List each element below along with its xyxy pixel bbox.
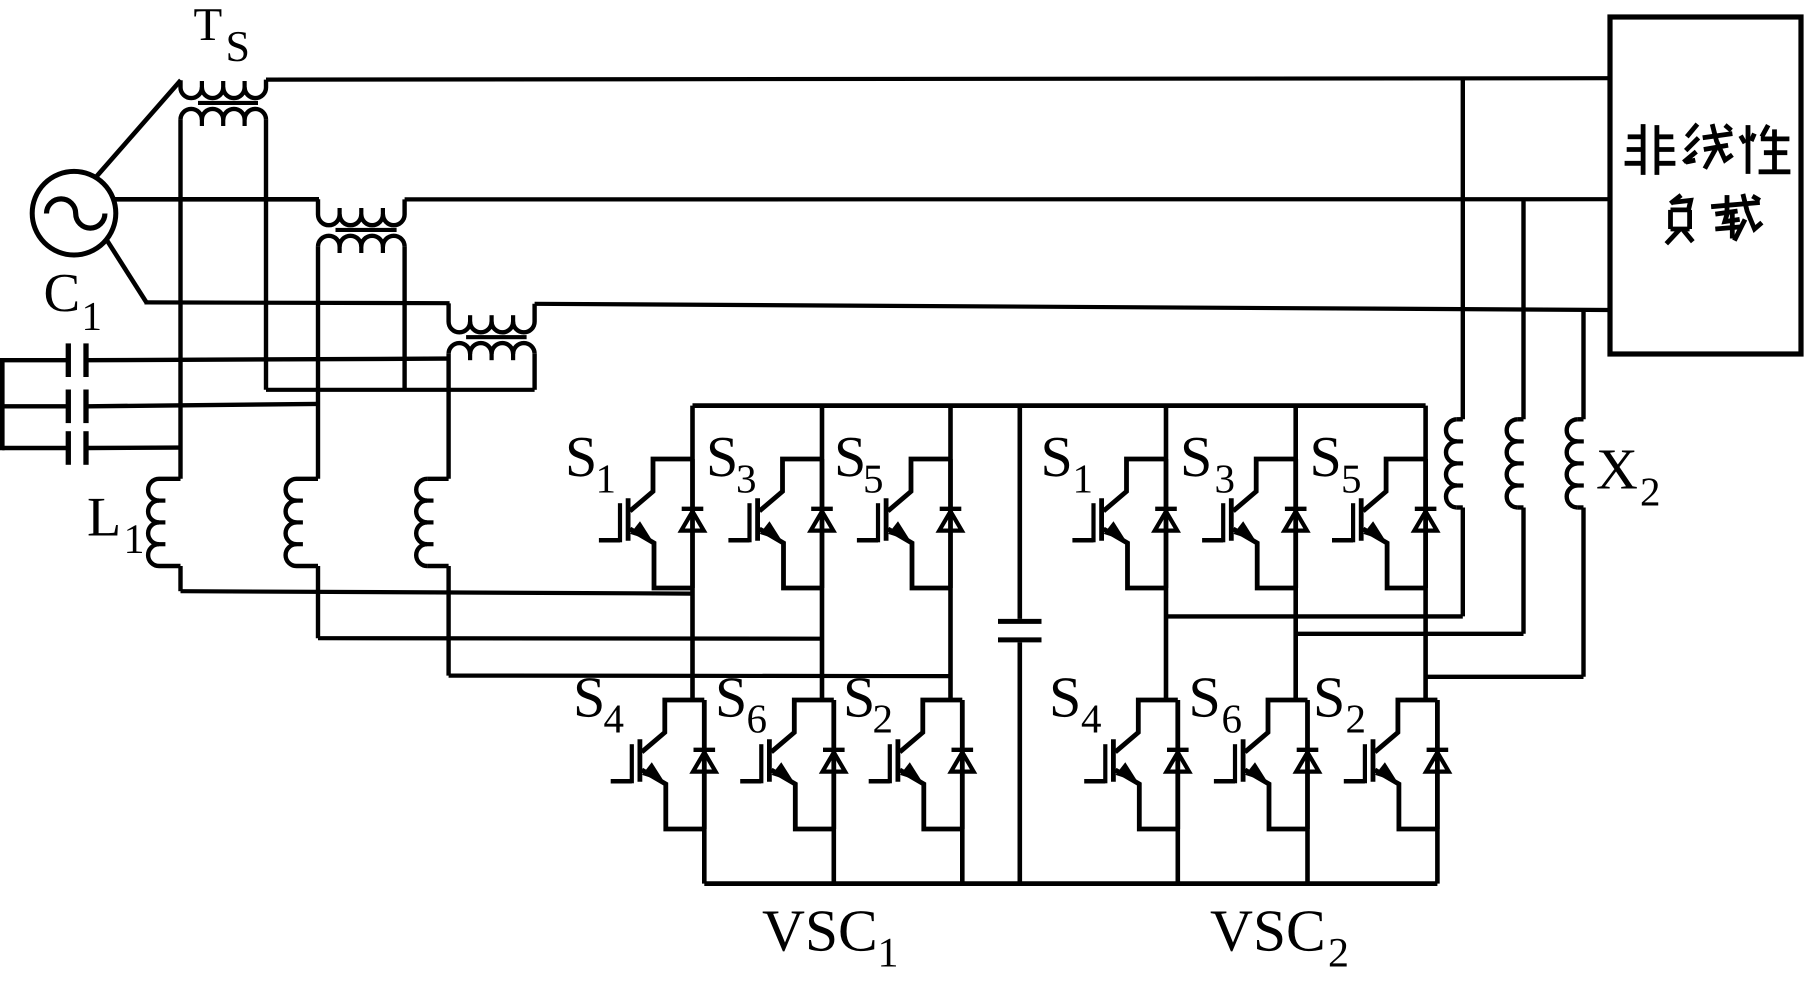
capacitor DC-link top lead <box>1017 406 1022 619</box>
wire T1 secondary right leg <box>264 120 268 390</box>
capacitor C1c plates <box>66 431 71 465</box>
capacitor C1a left wire <box>2 358 66 362</box>
svg-text:S: S <box>1310 424 1342 489</box>
wire VSC2 leg2 lower <box>1305 829 1310 884</box>
transistor S3b VSC2 gate bar <box>1221 503 1225 542</box>
svg-text:6: 6 <box>747 696 768 742</box>
transistor S1b VSC2 gate lead <box>1072 538 1093 543</box>
transistor S5 VSC1 antiparallel diode branch <box>948 459 953 588</box>
capacitor C1a right wire <box>89 359 449 361</box>
transistor S6 VSC1 gate bar <box>759 744 763 783</box>
transformer T3 TS-c primary winding <box>449 303 535 332</box>
transistor S5 VSC1 emitter lead <box>888 529 951 588</box>
transformer T1 TS-a secondary stubs <box>200 119 204 126</box>
wire L1b to VSC1 leg2 <box>318 636 822 641</box>
svg-text:VSC: VSC <box>1210 898 1326 964</box>
transistor S4 VSC1 diode triangle <box>693 752 716 771</box>
transformer T3 TS-c primary stubs <box>468 315 472 322</box>
transistor S4b VSC2 gate lead <box>1084 779 1105 784</box>
node capacitor neutral bus <box>0 358 5 450</box>
svg-text:5: 5 <box>1341 456 1362 502</box>
transistor S6 VSC1 diode cathode bar <box>823 748 845 752</box>
transistor S4 VSC1 emitter arrow <box>642 762 664 782</box>
transistor S1 VSC1 gate lead <box>599 538 620 543</box>
transistor S5 VSC1 diode cathode bar <box>940 507 962 511</box>
inductor X2c top hook <box>1577 417 1583 421</box>
transistor S2 VSC1 body bar <box>896 739 901 781</box>
transistor S3b VSC2 collector lead <box>1233 459 1296 511</box>
inductor X2b top hook <box>1517 417 1523 421</box>
svg-text:2: 2 <box>1640 469 1661 515</box>
svg-text:X: X <box>1596 437 1638 502</box>
svg-text:6: 6 <box>1222 696 1243 742</box>
transistor S6 VSC1 emitter arrow <box>772 762 794 782</box>
wire bus A to load <box>266 78 1610 79</box>
wire VSC1 leg1 mid <box>690 588 695 700</box>
svg-text:S: S <box>1180 424 1212 489</box>
transistor S5 VSC1 gate lead <box>857 538 878 543</box>
capacitor C1b right wire <box>89 404 319 406</box>
svg-text:2: 2 <box>1346 696 1367 742</box>
svg-text:S: S <box>226 22 250 71</box>
inductor L1a top hook <box>159 477 181 481</box>
transistor S3 VSC1 gate lead <box>728 538 749 543</box>
transistor S4b VSC2 diode triangle <box>1167 752 1190 771</box>
transistor S6b VSC2 antiparallel diode branch <box>1305 700 1310 829</box>
svg-text:3: 3 <box>736 456 757 502</box>
transistor S1b VSC2 emitter arrow <box>1104 521 1126 541</box>
transistor S5b VSC2 diode triangle <box>1414 511 1437 530</box>
svg-text:1: 1 <box>124 517 145 563</box>
transistor S4 VSC1 collector lead <box>642 700 705 752</box>
wire VSC2 leg2 upper <box>1293 406 1298 459</box>
svg-text:1: 1 <box>878 931 899 977</box>
transformer T3 TS-c core <box>466 335 526 339</box>
transistor S4 VSC1 emitter lead <box>642 770 705 829</box>
wire T2 secondary right leg <box>402 247 406 390</box>
inductor L1a bottom lead <box>178 566 182 591</box>
transistor S3b VSC2 diode triangle <box>1284 511 1307 530</box>
transistor S6b VSC2 collector lead <box>1245 700 1308 752</box>
wire VSC2 leg3 lower <box>1435 829 1440 884</box>
transistor S2 VSC1 diode cathode bar <box>952 748 974 752</box>
transistor S3 VSC1 gate bar <box>747 503 751 542</box>
transistor S4b VSC2 gate bar <box>1103 744 1107 783</box>
inductor X2c coil <box>1567 419 1578 507</box>
svg-text:1: 1 <box>1073 456 1094 502</box>
capacitor DC-link plates <box>998 619 1042 624</box>
transistor S5b VSC2 antiparallel diode branch <box>1423 459 1428 588</box>
svg-text:L: L <box>87 487 121 549</box>
transistor S2 VSC1 diode triangle <box>951 752 974 771</box>
transistor S3 VSC1 antiparallel diode branch <box>820 459 825 588</box>
transistor S6b VSC2 gate lead <box>1214 779 1235 784</box>
inductor X2a bottom lead <box>1461 508 1465 617</box>
AC source VS <box>32 171 116 255</box>
svg-text:S: S <box>706 424 738 489</box>
transistor S3b VSC2 diode cathode bar <box>1285 507 1307 511</box>
inductor X2c top lead <box>1581 310 1585 420</box>
transistor S2b VSC2 emitter lead <box>1375 770 1438 829</box>
inductor L1c top hook <box>427 477 449 481</box>
svg-text:S: S <box>565 424 597 489</box>
transistor S5 VSC1 body bar <box>884 498 889 540</box>
transistor S6 VSC1 collector lead <box>771 700 834 752</box>
transistor S4 VSC1 antiparallel diode branch <box>702 700 707 829</box>
transistor S1b VSC2 gate bar <box>1091 503 1095 542</box>
transistor S2b VSC2 body bar <box>1371 739 1376 781</box>
inductor L1c bottom lead <box>446 566 450 676</box>
wire VSC1 leg2 mid <box>820 588 825 700</box>
svg-text:5: 5 <box>863 456 884 502</box>
label load text line1 <box>1641 124 1646 175</box>
nonlinear load box <box>1610 17 1801 354</box>
transistor S2b VSC2 gate lead <box>1344 779 1365 784</box>
transistor S4b VSC2 emitter arrow <box>1116 762 1138 782</box>
inductor X2c bottom hook <box>1577 505 1583 509</box>
transistor S5b VSC2 gate bar <box>1351 503 1355 542</box>
transistor S6 VSC1 diode triangle <box>823 752 846 771</box>
transistor S3 VSC1 emitter arrow <box>760 521 782 541</box>
transformer T1 TS-a secondary winding <box>181 109 267 120</box>
transistor S1 VSC1 diode triangle <box>681 511 704 530</box>
inductor X2b top lead <box>1521 199 1525 419</box>
transistor S2b VSC2 emitter arrow <box>1375 762 1397 782</box>
svg-text:S: S <box>834 424 866 489</box>
transformer T1 TS-a primary winding <box>181 80 267 98</box>
wire VSC2 leg2 mid <box>1293 588 1298 700</box>
transistor S2 VSC1 gate lead <box>869 779 890 784</box>
transistor S6b VSC2 diode triangle <box>1296 752 1319 771</box>
transistor S4b VSC2 emitter lead <box>1115 770 1178 829</box>
transistor S1 VSC1 gate bar <box>618 503 622 542</box>
transistor S5 VSC1 gate bar <box>876 503 880 542</box>
transistor S1b VSC2 body bar <box>1099 498 1104 540</box>
capacitor C1a plates <box>66 343 71 377</box>
wire VSC1 leg3 lower <box>960 829 965 884</box>
transistor S2b VSC2 gate bar <box>1363 744 1367 783</box>
capacitor C1b left wire <box>2 404 66 408</box>
transistor S1 VSC1 collector lead <box>630 459 693 511</box>
inductor L1a bottom hook <box>159 564 181 568</box>
inductor X2a bottom hook <box>1457 505 1463 509</box>
wire phase C to T3 <box>145 300 450 305</box>
transistor S6 VSC1 antiparallel diode branch <box>831 700 836 829</box>
wire bus B to load <box>405 197 1610 201</box>
transistor S4 VSC1 gate bar <box>630 744 634 783</box>
transistor S4 VSC1 gate lead <box>611 779 632 784</box>
svg-text:S: S <box>1041 424 1073 489</box>
inductor L1b coil <box>286 479 297 566</box>
transistor S4b VSC2 collector lead <box>1115 700 1178 752</box>
inductor L1b bottom lead <box>316 566 320 638</box>
label load text line2 <box>1671 195 1682 203</box>
svg-text:2: 2 <box>873 696 894 742</box>
transistor S2b VSC2 antiparallel diode branch <box>1435 700 1440 829</box>
capacitor C1c left wire <box>2 446 66 450</box>
wire T3 secondary right leg <box>532 354 536 390</box>
transistor S2 VSC1 gate bar <box>888 744 892 783</box>
transistor S5b VSC2 diode cathode bar <box>1415 507 1437 511</box>
transistor S2 VSC1 antiparallel diode branch <box>960 700 965 829</box>
transistor S5b VSC2 collector lead <box>1363 459 1426 511</box>
transistor S5 VSC1 diode triangle <box>939 511 962 530</box>
transistor S2b VSC2 diode triangle <box>1426 752 1449 771</box>
inductor X2b coil <box>1507 419 1518 507</box>
transistor S6b VSC2 diode cathode bar <box>1297 748 1319 752</box>
inductor X2a top hook <box>1457 417 1463 421</box>
inductor L1b bottom hook <box>297 564 319 568</box>
transistor S3b VSC2 antiparallel diode branch <box>1293 459 1298 588</box>
transistor S2 VSC1 emitter arrow <box>900 762 922 782</box>
wire VSC DC- rail <box>704 881 1437 886</box>
transistor S1b VSC2 diode triangle <box>1155 511 1178 530</box>
transistor S5 VSC1 emitter arrow <box>888 521 910 541</box>
svg-text:S: S <box>715 665 747 730</box>
svg-text:S: S <box>1189 665 1221 730</box>
wire L1c to VSC1 leg3 <box>449 673 951 678</box>
wire T2 secondary left leg <box>316 247 320 479</box>
transistor S5b VSC2 emitter lead <box>1363 529 1426 588</box>
svg-text:3: 3 <box>1215 456 1236 502</box>
inductor X2b bottom hook <box>1517 505 1523 509</box>
transistor S5b VSC2 gate lead <box>1332 538 1353 543</box>
transformer T3 TS-c secondary stubs <box>468 353 472 360</box>
svg-text:C: C <box>44 262 81 323</box>
transistor S3 VSC1 body bar <box>755 498 760 540</box>
transformer T2 TS-b secondary winding <box>318 236 405 247</box>
wire T3 secondary left leg <box>446 354 450 479</box>
inductor X2a top lead <box>1461 79 1465 419</box>
wire secondary common bus <box>266 388 535 392</box>
svg-text:2: 2 <box>1328 931 1349 977</box>
wire VSC1 leg2 upper <box>820 406 825 459</box>
transistor S4 VSC1 diode cathode bar <box>694 748 716 752</box>
transistor S1b VSC2 antiparallel diode branch <box>1164 459 1169 588</box>
transistor S3b VSC2 gate lead <box>1202 538 1223 543</box>
wire T1 secondary left leg <box>178 120 182 479</box>
wire VSC2 leg3 mid <box>1423 588 1428 700</box>
transistor S4b VSC2 antiparallel diode branch <box>1175 700 1180 829</box>
inductor X2a coil <box>1446 419 1457 507</box>
svg-text:S: S <box>1313 665 1345 730</box>
transistor S6b VSC2 emitter arrow <box>1245 762 1267 782</box>
svg-text:T: T <box>194 0 223 51</box>
wire VSC2 phase3 to X2 <box>1426 675 1584 679</box>
wire VSC DC+ rail <box>693 403 1426 408</box>
inductor X2c bottom lead <box>1581 508 1585 677</box>
transistor S3 VSC1 collector lead <box>760 459 823 511</box>
transformer T2 TS-b secondary stubs <box>338 246 342 253</box>
svg-text:4: 4 <box>604 696 625 742</box>
transistor S2b VSC2 diode cathode bar <box>1427 748 1449 752</box>
wire VSC1 leg1 upper <box>690 406 695 459</box>
wire VSC2 leg1 mid <box>1164 588 1169 700</box>
transistor S1b VSC2 emitter lead <box>1104 529 1167 588</box>
inductor L1c bottom hook <box>427 564 449 568</box>
transistor S5b VSC2 body bar <box>1359 498 1364 540</box>
transistor S1 VSC1 emitter arrow <box>630 521 652 541</box>
transistor S1 VSC1 diode cathode bar <box>682 507 704 511</box>
capacitor DC-link bottom lead <box>1017 642 1022 883</box>
wire VSC1 leg2 lower <box>831 829 836 884</box>
transformer T1 TS-a core <box>198 101 258 105</box>
transistor S6 VSC1 body bar <box>767 739 772 781</box>
transistor S3b VSC2 emitter arrow <box>1233 521 1255 541</box>
wire VSC1 leg1 lower <box>702 829 707 884</box>
svg-text:VSC: VSC <box>762 898 878 964</box>
svg-text:1: 1 <box>82 293 103 339</box>
inductor L1b top hook <box>297 477 319 481</box>
inductor L1c coil <box>416 479 427 566</box>
wire VSC1 leg3 mid <box>948 588 953 700</box>
transistor S3b VSC2 body bar <box>1229 498 1234 540</box>
wire bus C to load <box>535 304 1610 310</box>
wire VSC2 phase2 to X2 <box>1296 632 1524 636</box>
transistor S6b VSC2 body bar <box>1241 739 1246 781</box>
transformer T3 TS-c secondary winding <box>449 343 535 354</box>
capacitor C1c right wire <box>89 445 181 450</box>
wire VSC2 phase1 to X2 <box>1166 614 1463 618</box>
transistor S6 VSC1 emitter lead <box>771 770 834 829</box>
wire VSC1 leg3 upper <box>948 406 953 459</box>
transistor S3 VSC1 diode triangle <box>811 511 834 530</box>
transistor S1b VSC2 diode cathode bar <box>1155 507 1177 511</box>
wire phase A diagonal <box>96 80 181 177</box>
transistor S5 VSC1 collector lead <box>888 459 951 511</box>
svg-text:4: 4 <box>1081 696 1102 742</box>
wire VSC2 leg3 upper <box>1423 406 1428 459</box>
transistor S6b VSC2 gate bar <box>1233 744 1237 783</box>
capacitor C1b plates <box>66 390 71 424</box>
transformer T1 TS-a primary stubs <box>200 81 204 88</box>
svg-text:S: S <box>843 665 875 730</box>
transistor S3b VSC2 emitter lead <box>1233 529 1296 588</box>
transistor S3 VSC1 diode cathode bar <box>811 507 833 511</box>
transistor S1 VSC1 antiparallel diode branch <box>690 459 695 588</box>
transistor S1 VSC1 emitter lead <box>630 529 693 588</box>
transformer T2 TS-b primary winding <box>318 199 405 225</box>
transistor S2 VSC1 emitter lead <box>900 770 963 829</box>
wire phase B from source <box>113 197 319 202</box>
transistor S4 VSC1 body bar <box>638 739 643 781</box>
transistor S4b VSC2 diode cathode bar <box>1167 748 1189 752</box>
svg-text:S: S <box>573 665 605 730</box>
transformer T2 TS-b core <box>336 228 397 232</box>
transistor S2b VSC2 collector lead <box>1375 700 1438 752</box>
wire VSC2 leg1 upper <box>1164 406 1169 459</box>
inductor X2b bottom lead <box>1521 508 1525 634</box>
wire phase C diagonal <box>106 239 146 302</box>
transistor S5b VSC2 emitter arrow <box>1363 521 1385 541</box>
svg-text:S: S <box>1049 665 1081 730</box>
wire L1a to VSC1 leg1 <box>181 591 693 593</box>
transistor S4b VSC2 body bar <box>1111 739 1116 781</box>
transistor S3 VSC1 emitter lead <box>760 529 823 588</box>
transistor S1 VSC1 body bar <box>626 498 631 540</box>
wire VSC2 leg1 lower <box>1176 829 1181 884</box>
transistor S6 VSC1 gate lead <box>740 779 761 784</box>
transistor S1b VSC2 collector lead <box>1104 459 1167 511</box>
inductor L1a coil <box>148 479 159 566</box>
transformer T2 TS-b primary stubs <box>338 208 342 215</box>
transistor S2 VSC1 collector lead <box>900 700 963 752</box>
transistor S6b VSC2 emitter lead <box>1245 770 1308 829</box>
svg-text:1: 1 <box>596 456 617 502</box>
